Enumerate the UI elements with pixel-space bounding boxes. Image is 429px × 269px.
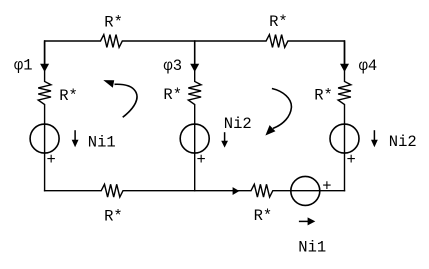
svg-text:R*: R* [104, 207, 123, 225]
svg-text:+: + [46, 151, 55, 169]
svg-text:φ1: φ1 [14, 57, 33, 75]
svg-text:φ3: φ3 [163, 57, 182, 75]
svg-text:+: + [322, 178, 331, 196]
svg-text:+: + [196, 151, 205, 169]
svg-text:R*: R* [104, 14, 123, 32]
svg-text:R*: R* [254, 207, 273, 225]
svg-text:φ4: φ4 [359, 57, 378, 75]
svg-text:R*: R* [59, 87, 78, 105]
svg-text:+: + [346, 151, 355, 169]
svg-text:Ni1: Ni1 [88, 133, 116, 151]
svg-text:Ni2: Ni2 [224, 115, 252, 133]
svg-text:Ni2: Ni2 [389, 133, 417, 151]
svg-text:R*: R* [269, 13, 288, 31]
svg-text:R*: R* [163, 86, 182, 104]
svg-text:Ni1: Ni1 [298, 239, 326, 257]
svg-text:R*: R* [314, 87, 333, 105]
